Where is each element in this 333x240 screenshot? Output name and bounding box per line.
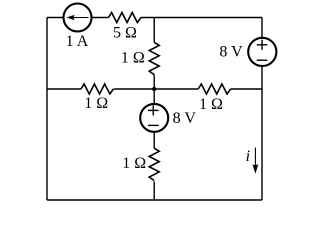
svg-text:1 Ω: 1 Ω <box>122 155 146 172</box>
wire middle-right <box>231 88 262 90</box>
V2 plus sign <box>148 105 159 115</box>
svg-text:8 V: 8 V <box>173 110 197 127</box>
wire middle-left <box>47 88 81 90</box>
V1 plus sign <box>257 40 268 50</box>
current source I1 circle <box>64 4 92 32</box>
voltage source V1 (right) circle <box>248 38 276 66</box>
svg-text:1 Ω: 1 Ω <box>84 95 108 112</box>
svg-text:5 Ω: 5 Ω <box>113 25 137 42</box>
current arrow i <box>252 148 258 174</box>
resistor 1ohm middle-right <box>198 84 230 94</box>
svg-text:i: i <box>246 148 250 165</box>
svg-text:1 A: 1 A <box>66 33 89 50</box>
wire center branch lower <box>153 181 155 200</box>
wire center branch upper <box>153 18 155 43</box>
wire center branch (resistor to node to source) <box>153 75 155 149</box>
wire top (right segment) <box>141 17 262 19</box>
wire top (left segment through current source) <box>47 17 109 19</box>
V1 minus sign <box>257 59 268 61</box>
V2 minus sign <box>148 124 159 126</box>
wire bottom <box>47 199 262 201</box>
resistor 1ohm vertical top <box>149 42 159 74</box>
current source I1 arrow <box>66 15 88 20</box>
voltage source V2 (center) circle <box>140 104 168 132</box>
wire right side <box>261 18 263 201</box>
wire left side <box>46 18 48 201</box>
svg-text:1 Ω: 1 Ω <box>199 96 223 113</box>
node dot (center) <box>152 87 156 91</box>
svg-text:8 V: 8 V <box>219 44 243 61</box>
svg-text:1 Ω: 1 Ω <box>121 50 145 67</box>
resistor 1ohm vertical bottom <box>149 148 159 180</box>
resistor 1ohm middle-left <box>81 84 113 94</box>
wire middle-center <box>114 88 199 90</box>
resistor 5ohm <box>109 13 141 23</box>
